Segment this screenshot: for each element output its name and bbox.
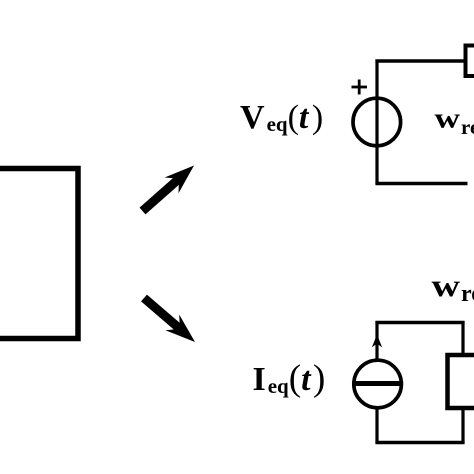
wire: Norton right vertical lower [461, 408, 464, 443]
resistor box w_re (top, clipped at right edge) [466, 46, 474, 77]
label w_re (bottom) [432, 267, 474, 307]
voltage source V_eq circle [353, 98, 401, 146]
svg-text:Ieq(t): Ieq(t) [253, 358, 326, 399]
resistor box w_re (bottom, clipped at right edge) [448, 355, 474, 408]
wire: Thevenin left vertical [375, 60, 378, 184]
svg-text:w: w [435, 103, 461, 135]
current source I_eq circle [354, 360, 402, 408]
current source bar [354, 381, 401, 386]
wire: Norton right vertical upper [461, 321, 464, 356]
arrow to Norton equivalent (lower) [144, 298, 195, 342]
arrow to Thevenin equivalent (upper) [143, 166, 195, 212]
wire: Norton left vertical (source branch) [375, 321, 378, 360]
wire: Norton top horizontal [375, 321, 464, 324]
label w_re (top) [435, 103, 474, 139]
wire: below current source [375, 409, 378, 443]
svg-text:re: re [461, 115, 474, 139]
svg-text:w: w [432, 267, 461, 303]
svg-text:re: re [461, 281, 474, 307]
source network box (left, clipped at image edge) [0, 169, 78, 339]
wire: Thevenin top horizontal [375, 59, 466, 62]
wire: Norton bottom horizontal [375, 441, 464, 444]
current direction arrowhead [372, 335, 382, 348]
plus sign polarity mark [352, 80, 368, 95]
wire: Thevenin bottom horizontal [375, 182, 467, 185]
